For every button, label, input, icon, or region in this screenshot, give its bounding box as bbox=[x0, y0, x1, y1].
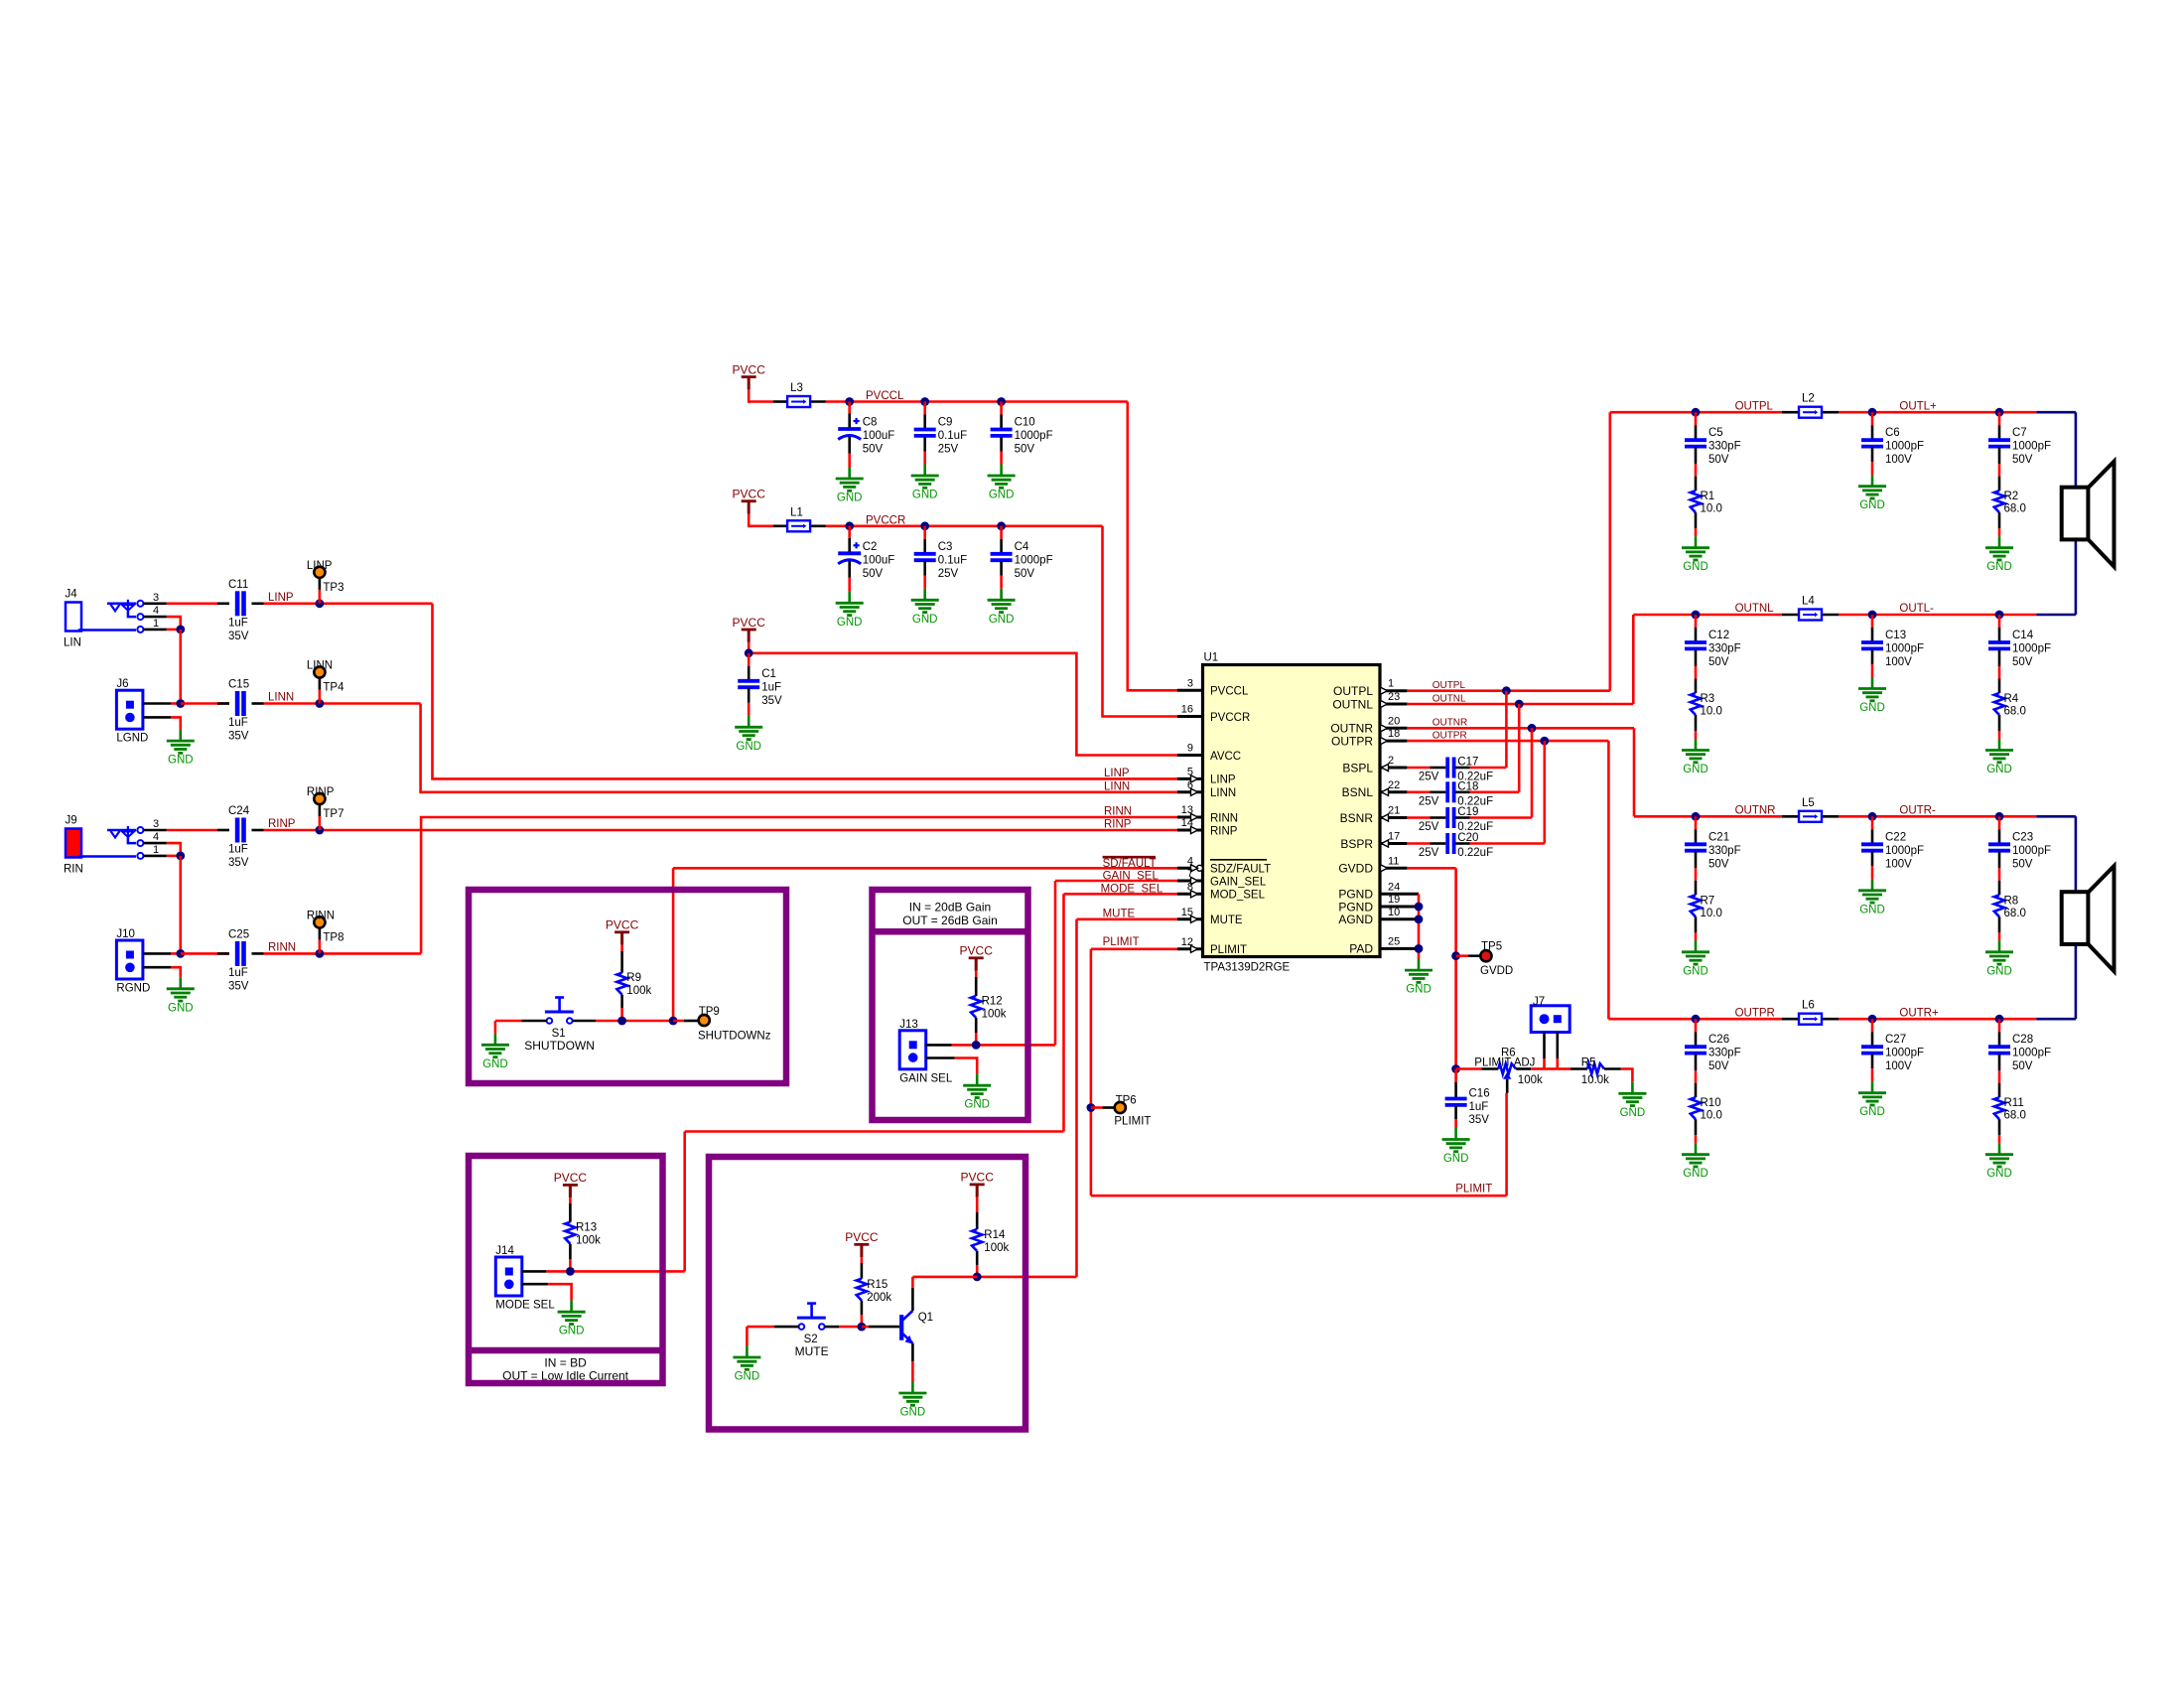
test point TP7 bbox=[307, 786, 344, 834]
resistor R12 bbox=[971, 971, 1007, 1045]
svg-text:GND: GND bbox=[1620, 1107, 1646, 1119]
svg-text:3: 3 bbox=[153, 592, 159, 604]
ground (S2) bbox=[733, 1327, 760, 1382]
svg-text:PLIMIT ADJ: PLIMIT ADJ bbox=[1474, 1056, 1535, 1068]
capacitor C20 bbox=[1407, 832, 1544, 859]
svg-text:330pF: 330pF bbox=[1708, 643, 1741, 655]
capacitor C27 bbox=[1858, 1015, 1924, 1118]
svg-text:0.1uF: 0.1uF bbox=[938, 430, 967, 442]
svg-text:J9: J9 bbox=[66, 815, 77, 827]
purple box (MUTE circuit) bbox=[709, 1157, 1025, 1430]
net label PLIMIT (at U1) bbox=[1103, 936, 1140, 948]
svg-text:J14: J14 bbox=[495, 1245, 514, 1257]
speaker (left channel) bbox=[2062, 462, 2115, 567]
inductor L4 bbox=[1799, 596, 1822, 621]
test point TP3 bbox=[307, 560, 344, 608]
svg-text:C19: C19 bbox=[1457, 806, 1478, 818]
svg-text:GND: GND bbox=[1859, 499, 1885, 511]
svg-text:4: 4 bbox=[153, 831, 159, 843]
svg-text:0.22uF: 0.22uF bbox=[1457, 847, 1493, 859]
svg-text:GND: GND bbox=[837, 617, 863, 629]
svg-text:R3: R3 bbox=[1701, 693, 1715, 705]
svg-text:R2: R2 bbox=[2004, 491, 2019, 502]
capacitor C23 / resistor R8 bbox=[1985, 812, 2051, 977]
net label PLIMIT (bottom) bbox=[1455, 1184, 1492, 1196]
svg-text:OUTPL: OUTPL bbox=[1735, 400, 1774, 412]
wire OUTNR (pin 20) bbox=[1407, 724, 1634, 818]
svg-text:1000pF: 1000pF bbox=[2012, 845, 2051, 857]
svg-text:GND: GND bbox=[482, 1058, 508, 1070]
svg-text:C17: C17 bbox=[1457, 757, 1478, 769]
svg-text:PVCC: PVCC bbox=[554, 1171, 588, 1185]
svg-text:GND: GND bbox=[912, 490, 938, 501]
net label OUTNL (at U1) bbox=[1433, 693, 1466, 704]
svg-text:50V: 50V bbox=[2012, 1060, 2033, 1072]
wire PVCCL rail bbox=[773, 402, 1177, 691]
svg-text:PLIMIT: PLIMIT bbox=[1103, 936, 1140, 948]
svg-text:OUT = 26dB Gain: OUT = 26dB Gain bbox=[902, 914, 998, 927]
capacitor C13 bbox=[1858, 611, 1924, 714]
svg-text:J10: J10 bbox=[116, 928, 135, 940]
capacitor C11 bbox=[228, 579, 249, 642]
svg-text:C7: C7 bbox=[2012, 427, 2027, 439]
svg-text:RINP: RINP bbox=[307, 786, 335, 798]
junction (R14/collector) bbox=[973, 1273, 982, 1282]
svg-text:4: 4 bbox=[153, 605, 159, 617]
svg-text:100k: 100k bbox=[984, 1242, 1009, 1254]
ground (J6) bbox=[167, 730, 195, 767]
svg-text:GVDD: GVDD bbox=[1480, 965, 1513, 977]
svg-text:100V: 100V bbox=[1885, 858, 1912, 870]
svg-text:100uF: 100uF bbox=[863, 430, 895, 442]
capacitor C19 bbox=[1407, 806, 1532, 833]
net label SD/FAULT bbox=[1103, 857, 1157, 870]
svg-text:AVCC: AVCC bbox=[1210, 751, 1241, 763]
svg-text:R12: R12 bbox=[982, 996, 1003, 1008]
capacitor C17 bbox=[1407, 757, 1506, 783]
resistor R9 bbox=[616, 945, 651, 1021]
capacitor C22 bbox=[1858, 812, 1924, 915]
ground (J13) bbox=[963, 1074, 991, 1111]
net label MODE_SEL bbox=[1101, 883, 1163, 895]
svg-text:25V: 25V bbox=[1419, 772, 1439, 783]
capacitor C12 / resistor R3 bbox=[1682, 611, 1741, 775]
svg-text:OUTPR: OUTPR bbox=[1735, 1007, 1775, 1019]
svg-text:MUTE: MUTE bbox=[795, 1344, 829, 1358]
svg-text:1000pF: 1000pF bbox=[1885, 845, 1924, 857]
svg-text:LIN: LIN bbox=[64, 637, 81, 649]
svg-text:330pF: 330pF bbox=[1708, 1048, 1741, 1059]
svg-text:100V: 100V bbox=[1885, 454, 1912, 466]
power symbol PVCC (R9) bbox=[606, 918, 639, 945]
svg-text:PVCCL: PVCCL bbox=[1210, 686, 1249, 698]
svg-text:OUTNL: OUTNL bbox=[1735, 603, 1775, 615]
svg-text:LGND: LGND bbox=[116, 733, 148, 745]
wire PGND/AGND/PAD bbox=[1415, 894, 1424, 958]
svg-text:R5: R5 bbox=[1581, 1056, 1596, 1068]
net label PVCCL bbox=[866, 390, 904, 402]
connector J14 (MODE SEL) bbox=[495, 1245, 575, 1312]
svg-text:21: 21 bbox=[1388, 805, 1400, 817]
net label GAIN_SEL bbox=[1103, 871, 1160, 883]
svg-text:GND: GND bbox=[964, 1099, 990, 1111]
svg-text:MUTE: MUTE bbox=[1210, 914, 1243, 926]
svg-text:50V: 50V bbox=[1708, 1060, 1729, 1072]
svg-text:GND: GND bbox=[1986, 561, 2012, 573]
transistor Q1 bbox=[862, 1277, 977, 1382]
svg-text:R10: R10 bbox=[1701, 1097, 1721, 1109]
svg-text:L5: L5 bbox=[1802, 797, 1815, 809]
svg-text:100k: 100k bbox=[626, 985, 651, 997]
svg-text:GND: GND bbox=[989, 614, 1015, 626]
svg-text:R13: R13 bbox=[576, 1222, 597, 1234]
svg-text:LINN: LINN bbox=[1210, 787, 1236, 799]
svg-text:GND: GND bbox=[1683, 561, 1708, 573]
svg-text:TPA3139D2RGE: TPA3139D2RGE bbox=[1204, 962, 1291, 974]
svg-text:25V: 25V bbox=[1419, 821, 1439, 833]
purple box (SHUTDOWN circuit) bbox=[469, 890, 786, 1083]
wire GVDD bbox=[1407, 868, 1455, 1068]
svg-text:MODE SEL: MODE SEL bbox=[495, 1300, 555, 1312]
power symbol PVCC (rail PVCCL) bbox=[733, 362, 773, 402]
inductor L1 bbox=[787, 506, 810, 531]
svg-text:GND: GND bbox=[900, 1407, 926, 1419]
svg-text:SHUTDOWNz: SHUTDOWNz bbox=[698, 1031, 771, 1043]
svg-text:L1: L1 bbox=[790, 506, 803, 518]
svg-text:35V: 35V bbox=[1469, 1114, 1490, 1126]
svg-text:200k: 200k bbox=[867, 1292, 891, 1304]
wire PLIMIT net bbox=[1091, 949, 1507, 1196]
net label PVCCR bbox=[866, 514, 905, 526]
svg-text:RINN: RINN bbox=[307, 910, 335, 921]
resistor R15 bbox=[857, 1258, 892, 1327]
svg-text:GND: GND bbox=[912, 614, 938, 626]
svg-text:LINN: LINN bbox=[1104, 780, 1130, 792]
svg-text:C25: C25 bbox=[228, 928, 249, 940]
svg-text:C3: C3 bbox=[938, 541, 953, 553]
svg-text:BSPR: BSPR bbox=[1340, 837, 1373, 851]
resistor R5 bbox=[1558, 1056, 1633, 1086]
net label RINN bbox=[268, 941, 296, 953]
svg-text:C8: C8 bbox=[863, 417, 878, 429]
power symbol PVCC (R14) bbox=[961, 1171, 995, 1203]
svg-text:25V: 25V bbox=[1419, 847, 1439, 859]
svg-text:20: 20 bbox=[1388, 715, 1400, 727]
svg-text:GND: GND bbox=[989, 490, 1015, 501]
svg-text:LINP: LINP bbox=[268, 592, 294, 604]
svg-text:17: 17 bbox=[1388, 831, 1400, 843]
inductor L2 bbox=[1799, 393, 1822, 418]
wire RINN bbox=[176, 817, 1177, 958]
wire MUTE net bbox=[977, 919, 1177, 1277]
svg-text:PLIMIT: PLIMIT bbox=[1210, 944, 1247, 956]
svg-text:C14: C14 bbox=[2012, 630, 2034, 641]
svg-text:GND: GND bbox=[559, 1326, 585, 1337]
potentiometer R6 (PLIMIT ADJ) bbox=[1456, 1048, 1545, 1093]
svg-text:50V: 50V bbox=[2012, 858, 2033, 870]
svg-text:OUT = Low Idle Current: OUT = Low Idle Current bbox=[502, 1369, 628, 1383]
svg-text:SDZ/FAULT: SDZ/FAULT bbox=[1210, 864, 1271, 876]
svg-text:OUTNL: OUTNL bbox=[1332, 697, 1373, 711]
svg-text:BSNL: BSNL bbox=[1342, 785, 1374, 799]
svg-text:10.0: 10.0 bbox=[1701, 1110, 1722, 1122]
svg-text:C12: C12 bbox=[1708, 630, 1729, 641]
svg-text:R9: R9 bbox=[626, 972, 641, 984]
svg-text:TP3: TP3 bbox=[323, 582, 343, 594]
svg-text:100uF: 100uF bbox=[863, 554, 895, 566]
capacitor C14 / resistor R4 bbox=[1985, 611, 2051, 775]
svg-text:50V: 50V bbox=[2012, 656, 2033, 668]
connector J10 (RGND) bbox=[116, 928, 180, 995]
svg-text:OUTR+: OUTR+ bbox=[1899, 1007, 1939, 1019]
svg-text:BSNR: BSNR bbox=[1340, 811, 1374, 825]
svg-text:10: 10 bbox=[1388, 907, 1400, 918]
capacitor C3 bbox=[911, 521, 967, 625]
wire J9 ground bbox=[167, 843, 185, 953]
svg-text:R4: R4 bbox=[2004, 693, 2019, 705]
svg-text:C27: C27 bbox=[1885, 1034, 1906, 1046]
svg-text:J7: J7 bbox=[1533, 996, 1545, 1008]
wire row OUTNL/OUTL- bbox=[1633, 539, 2076, 615]
svg-text:1000pF: 1000pF bbox=[1015, 554, 1053, 566]
svg-text:OUTL+: OUTL+ bbox=[1899, 400, 1937, 412]
inductor L5 bbox=[1799, 797, 1822, 822]
capacitor C26 / resistor R10 bbox=[1682, 1015, 1741, 1180]
switch S2 (MUTE) bbox=[747, 1304, 866, 1359]
svg-text:1uF: 1uF bbox=[228, 844, 248, 856]
capacitor C21 / resistor R7 bbox=[1682, 812, 1741, 977]
svg-text:50V: 50V bbox=[1708, 858, 1729, 870]
svg-text:BSPL: BSPL bbox=[1342, 761, 1373, 774]
svg-text:100V: 100V bbox=[1885, 656, 1912, 668]
svg-text:GND: GND bbox=[837, 492, 863, 504]
svg-text:GND: GND bbox=[1443, 1153, 1469, 1165]
capacitor C15 bbox=[228, 679, 249, 743]
capacitor C7 / resistor R2 bbox=[1985, 408, 2051, 573]
capacitor C8 bbox=[836, 397, 895, 503]
capacitor C16 bbox=[1445, 1069, 1490, 1129]
svg-text:GAIN_SEL: GAIN_SEL bbox=[1210, 876, 1267, 888]
svg-text:68.0: 68.0 bbox=[2004, 1110, 2026, 1122]
svg-text:1: 1 bbox=[153, 844, 159, 856]
svg-text:C5: C5 bbox=[1708, 427, 1723, 439]
test point TP9 bbox=[673, 1006, 771, 1043]
connector J9 (RIN RCA jack) bbox=[64, 815, 167, 876]
capacitor C9 bbox=[911, 397, 967, 500]
svg-text:68.0: 68.0 bbox=[2004, 908, 2026, 919]
svg-text:35V: 35V bbox=[228, 857, 249, 869]
svg-text:C11: C11 bbox=[228, 579, 248, 591]
svg-text:SHUTDOWN: SHUTDOWN bbox=[524, 1039, 595, 1053]
svg-text:35V: 35V bbox=[228, 631, 249, 642]
wire row OUTPR/OUTR+ bbox=[1608, 944, 2075, 1020]
svg-text:100k: 100k bbox=[982, 1009, 1007, 1021]
U1 right pins bbox=[1330, 678, 1419, 956]
connector J13 (GAIN SEL) bbox=[899, 1019, 980, 1085]
svg-text:OUTNR: OUTNR bbox=[1735, 805, 1776, 817]
svg-text:J6: J6 bbox=[116, 678, 128, 690]
svg-text:PAD: PAD bbox=[1349, 942, 1373, 956]
net label RINN (at U1) bbox=[1104, 806, 1132, 818]
svg-text:R14: R14 bbox=[984, 1229, 1006, 1241]
svg-text:10.0k: 10.0k bbox=[1581, 1074, 1609, 1086]
svg-text:1: 1 bbox=[1388, 678, 1394, 690]
svg-text:L6: L6 bbox=[1802, 1000, 1815, 1012]
svg-text:1000pF: 1000pF bbox=[1885, 441, 1924, 453]
wire RINP bbox=[167, 829, 1177, 832]
svg-text:TP7: TP7 bbox=[323, 808, 343, 820]
wire J4 ground bbox=[167, 617, 185, 703]
connector J7 bbox=[1531, 996, 1570, 1069]
ground (J10) bbox=[167, 977, 195, 1014]
power symbol PVCC (R12) bbox=[960, 944, 994, 971]
test point TP5 bbox=[1451, 941, 1513, 977]
svg-text:R1: R1 bbox=[1701, 491, 1715, 502]
svg-text:RIN: RIN bbox=[64, 864, 83, 876]
ground (C16) bbox=[1442, 1128, 1470, 1165]
svg-text:25: 25 bbox=[1388, 935, 1400, 947]
svg-text:10.0: 10.0 bbox=[1701, 908, 1722, 919]
svg-text:J13: J13 bbox=[899, 1019, 918, 1031]
svg-text:10.0: 10.0 bbox=[1701, 706, 1722, 718]
resistor R14 bbox=[972, 1203, 1009, 1277]
svg-text:C26: C26 bbox=[1708, 1034, 1729, 1046]
svg-text:C6: C6 bbox=[1885, 427, 1900, 439]
capacitor C28 / resistor R11 bbox=[1985, 1015, 2051, 1180]
svg-text:GVDD: GVDD bbox=[1338, 862, 1373, 876]
svg-text:LINP: LINP bbox=[307, 560, 333, 572]
net label LINN (at U1) bbox=[1104, 780, 1130, 792]
svg-text:68.0: 68.0 bbox=[2004, 706, 2026, 718]
net label LINP bbox=[268, 592, 294, 604]
svg-text:IN = 20dB Gain: IN = 20dB Gain bbox=[909, 901, 991, 914]
svg-text:GND: GND bbox=[1683, 764, 1708, 775]
svg-text:50V: 50V bbox=[1708, 454, 1729, 466]
svg-text:RINN: RINN bbox=[268, 941, 296, 953]
net label RINP bbox=[268, 818, 296, 830]
svg-text:C13: C13 bbox=[1885, 630, 1906, 641]
wire AVCC bbox=[749, 653, 1177, 756]
wire MOD_SEL net bbox=[570, 894, 1177, 1271]
svg-text:LINP: LINP bbox=[1210, 774, 1236, 786]
switch S1 (SHUTDOWN) bbox=[495, 998, 678, 1054]
svg-text:1uF: 1uF bbox=[228, 717, 248, 729]
svg-text:PLIMIT: PLIMIT bbox=[1455, 1184, 1492, 1196]
svg-text:330pF: 330pF bbox=[1708, 845, 1741, 857]
svg-text:9: 9 bbox=[1187, 743, 1193, 755]
svg-text:25V: 25V bbox=[938, 444, 959, 456]
svg-text:GND: GND bbox=[168, 1002, 194, 1014]
net label OUTNR (at U1) bbox=[1433, 718, 1468, 729]
svg-text:23: 23 bbox=[1388, 691, 1400, 703]
svg-text:AGND: AGND bbox=[1338, 913, 1373, 926]
ground (J14) bbox=[558, 1301, 586, 1337]
svg-text:RINP: RINP bbox=[268, 818, 296, 830]
svg-text:PVCC: PVCC bbox=[961, 1171, 995, 1185]
junction (GVDD/R6) bbox=[1451, 1064, 1460, 1073]
svg-text:50V: 50V bbox=[863, 444, 884, 456]
svg-text:1000pF: 1000pF bbox=[2012, 643, 2051, 655]
svg-text:1000pF: 1000pF bbox=[1015, 430, 1053, 442]
svg-text:PVCC: PVCC bbox=[733, 616, 766, 630]
svg-text:PVCCR: PVCCR bbox=[866, 514, 905, 526]
svg-text:GND: GND bbox=[1406, 984, 1432, 996]
svg-text:C2: C2 bbox=[863, 541, 878, 553]
svg-text:J4: J4 bbox=[66, 589, 78, 601]
svg-text:35V: 35V bbox=[761, 695, 782, 707]
power symbol PVCC (AVCC) bbox=[733, 616, 766, 653]
svg-text:0.1uF: 0.1uF bbox=[938, 554, 967, 566]
svg-text:100k: 100k bbox=[1518, 1074, 1543, 1086]
test point TP6 bbox=[1087, 1095, 1152, 1128]
svg-text:R8: R8 bbox=[2004, 895, 2019, 907]
svg-text:RINN: RINN bbox=[1104, 806, 1132, 818]
U1 left pins bbox=[1177, 677, 1271, 956]
net label LINN bbox=[268, 692, 294, 704]
svg-text:1000pF: 1000pF bbox=[2012, 441, 2051, 453]
capacitor C10 bbox=[988, 397, 1053, 500]
svg-text:RINP: RINP bbox=[1210, 825, 1238, 837]
capacitor C5 / resistor R1 bbox=[1682, 408, 1741, 573]
svg-text:C10: C10 bbox=[1015, 417, 1035, 429]
svg-text:GND: GND bbox=[1683, 965, 1708, 977]
svg-text:GND: GND bbox=[1859, 702, 1885, 714]
svg-text:IN = BD: IN = BD bbox=[544, 1355, 587, 1369]
svg-text:L2: L2 bbox=[1802, 393, 1815, 405]
wire SD/FAULT net bbox=[673, 868, 1177, 1021]
capacitor C24 bbox=[228, 805, 250, 869]
svg-text:LINN: LINN bbox=[268, 692, 294, 704]
net label RINP (at U1) bbox=[1104, 819, 1132, 831]
svg-text:330pF: 330pF bbox=[1708, 441, 1741, 453]
svg-text:GND: GND bbox=[1859, 1106, 1885, 1118]
svg-text:1uF: 1uF bbox=[228, 618, 248, 630]
wire LINP bbox=[167, 604, 1177, 779]
capacitor C1 bbox=[735, 648, 782, 752]
svg-text:GND: GND bbox=[735, 1371, 760, 1383]
net label OUTPR (at U1) bbox=[1433, 731, 1467, 742]
svg-text:1000pF: 1000pF bbox=[1885, 1048, 1924, 1059]
wire row OUTPL/OUTL+ bbox=[1610, 400, 2076, 487]
svg-text:PVCC: PVCC bbox=[845, 1230, 879, 1244]
svg-text:50V: 50V bbox=[2012, 454, 2033, 466]
capacitor C25 bbox=[228, 928, 249, 992]
svg-text:C15: C15 bbox=[228, 679, 249, 691]
wire GAIN_SEL net bbox=[976, 881, 1177, 1045]
svg-text:TP6: TP6 bbox=[1116, 1095, 1137, 1107]
inductor L3 bbox=[787, 382, 810, 407]
svg-text:GND: GND bbox=[736, 741, 761, 753]
svg-text:C18: C18 bbox=[1457, 780, 1478, 792]
svg-text:PVCCR: PVCCR bbox=[1210, 712, 1250, 724]
test point TP4 bbox=[307, 660, 344, 708]
svg-text:25V: 25V bbox=[938, 568, 959, 580]
ground (R5) bbox=[1618, 1082, 1646, 1119]
svg-text:1uF: 1uF bbox=[761, 681, 781, 693]
svg-text:24: 24 bbox=[1388, 881, 1400, 893]
svg-text:L3: L3 bbox=[790, 382, 803, 394]
svg-text:TP4: TP4 bbox=[323, 682, 344, 694]
svg-text:18: 18 bbox=[1388, 728, 1400, 740]
svg-text:16: 16 bbox=[1181, 704, 1193, 716]
capacitor C18 bbox=[1407, 780, 1519, 807]
svg-text:1uF: 1uF bbox=[1469, 1101, 1489, 1113]
svg-text:OUTL-: OUTL- bbox=[1899, 603, 1934, 615]
svg-text:R15: R15 bbox=[867, 1279, 887, 1291]
svg-text:C16: C16 bbox=[1469, 1088, 1490, 1100]
svg-text:PVCCL: PVCCL bbox=[866, 390, 904, 402]
resistor R13 bbox=[565, 1198, 601, 1271]
